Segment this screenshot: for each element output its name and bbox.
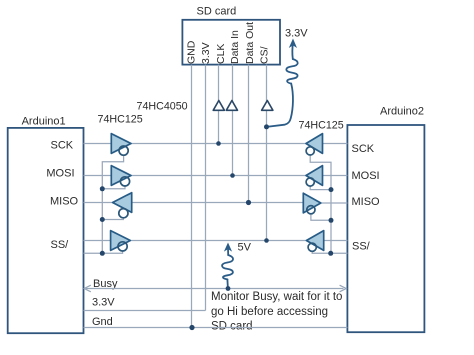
wire 3.3V pin vertical: [205, 65, 207, 311]
resistor R1 3.3V pull-up (CS): [286, 59, 297, 84]
wire left MOSI enable stub: [102, 186, 125, 189]
svg-text:Gnd: Gnd: [92, 316, 113, 328]
wire left MISO enable stub: [102, 218, 123, 220]
arrowhead 5V supply: [224, 243, 232, 252]
wire Busy net: [86, 288, 344, 290]
buffer 74HC125 right SS: [306, 231, 323, 251]
buffer 74HC4050 CLK: [213, 101, 224, 111]
junction right enable MISO: [329, 218, 334, 223]
wire Data Out pin vertical: [248, 65, 250, 203]
buffer 74HC125 right MISO: [303, 193, 321, 213]
junction CLK/SCK: [216, 141, 221, 146]
wire 3.3V arrow shaft: [291, 43, 294, 59]
svg-text:SS/: SS/: [51, 239, 70, 251]
wire SCK buffer to Arduino2: [323, 143, 348, 145]
wire CLK pin vertical: [218, 65, 220, 144]
buffer 74HC125 left MOSI: [111, 166, 131, 186]
buffer 74HC4050 CS: [262, 101, 273, 111]
wire right enable bus vertical: [310, 155, 331, 253]
svg-text:5V: 5V: [238, 242, 252, 254]
enable bubble left MISO: [119, 209, 128, 218]
enable bubble left MOSI: [120, 177, 129, 186]
junction CS/SS: [264, 238, 269, 243]
junction right enable SS: [328, 251, 333, 256]
wire Gnd net horizontal: [84, 327, 348, 329]
svg-text:MISO: MISO: [352, 196, 381, 208]
resistor R2 5V pull-up (Busy): [222, 255, 233, 279]
wire MISO Arduino1 to buffer: [84, 202, 113, 204]
enable bubble left SS: [118, 242, 127, 251]
svg-text:Data In: Data In: [229, 30, 241, 64]
buffer 74HC125 left SCK: [111, 134, 131, 154]
wire MOSI bus: [131, 175, 306, 177]
SD card box U3: [182, 20, 280, 65]
svg-text:3.3V: 3.3V: [92, 297, 115, 309]
svg-text:MOSI: MOSI: [352, 170, 380, 182]
buffer 74HC4050 Data In: [226, 101, 237, 111]
svg-text:CLK: CLK: [215, 44, 227, 64]
svg-text:SD card: SD card: [211, 321, 253, 333]
arrowhead Busy left: [84, 285, 91, 292]
svg-text:74HC4050: 74HC4050: [137, 101, 188, 113]
svg-text:SCK: SCK: [51, 140, 74, 152]
svg-text:74HC125: 74HC125: [98, 114, 143, 126]
arrowhead 3.3V supply: [289, 39, 297, 49]
buffer 74HC125 right SCK: [306, 134, 323, 154]
wire CS pin vertical: [266, 65, 268, 241]
wire left enable bus vertical: [102, 155, 123, 253]
arrowhead Busy right: [340, 285, 347, 292]
enable bubble right SS: [308, 243, 316, 251]
enable bubble right SCK: [306, 147, 314, 155]
svg-text:Monitor Busy, wait for it to: Monitor Busy, wait for it to: [211, 291, 342, 303]
junction Data In/MOSI: [230, 173, 235, 178]
junction right enable MOSI: [329, 187, 334, 192]
wire MOSI Arduino1 to buffer: [84, 175, 112, 177]
wire SS bus: [130, 240, 306, 242]
wire right MOSI enable stub: [310, 186, 331, 189]
wire MISO buffer to Arduino2: [321, 202, 348, 204]
wire right SS enable stub into Arduino2: [312, 251, 347, 253]
enable bubble left SCK: [119, 146, 128, 155]
svg-text:Arduino1: Arduino1: [22, 116, 66, 128]
wire R2 to Busy junction: [226, 279, 229, 288]
wire 5V arrow shaft: [227, 248, 229, 256]
svg-text:3.3V: 3.3V: [200, 42, 212, 64]
svg-text:go Hi before accessing: go Hi before accessing: [211, 306, 328, 318]
svg-text:CS/: CS/: [259, 46, 271, 64]
svg-text:GND: GND: [186, 40, 198, 64]
svg-text:SS/: SS/: [352, 241, 371, 253]
svg-text:MISO: MISO: [50, 196, 79, 208]
wire SS buffer to Arduino2: [324, 240, 348, 242]
wire SS Arduino1 to buffer: [84, 240, 111, 242]
svg-text:SD card: SD card: [197, 6, 237, 18]
wire R1 to CS junction: [267, 84, 293, 127]
wire right MISO enable stub: [311, 214, 331, 220]
junction left enable SS: [100, 251, 105, 256]
svg-text:SCK: SCK: [352, 143, 375, 155]
Arduino2 box: [347, 125, 424, 332]
Arduino1 box: [8, 128, 84, 333]
buffer 74HC125 left SS: [111, 231, 131, 251]
junction CS/R1: [264, 124, 269, 129]
junction left enable MISO: [100, 217, 105, 222]
svg-text:Data Out: Data Out: [244, 22, 256, 64]
enable bubble right MISO: [307, 206, 315, 214]
wire SCK bus: [131, 143, 306, 145]
svg-text:MOSI: MOSI: [46, 168, 74, 180]
wire Data In pin vertical: [232, 65, 234, 176]
wire GND pin vertical: [191, 65, 193, 328]
svg-text:3.3V: 3.3V: [285, 28, 308, 40]
junction left enable MOSI: [100, 186, 105, 191]
junction GND/Gnd: [189, 325, 194, 330]
wire SCK Arduino1 to buffer: [84, 143, 112, 145]
wire MOSI buffer to Arduino2: [323, 175, 348, 177]
buffer 74HC125 right MOSI: [306, 166, 323, 186]
junction R2/Busy: [226, 286, 231, 291]
buffer 74HC125 left MISO: [113, 193, 132, 213]
wire MISO bus: [132, 202, 304, 204]
wire 3.3V net horizontal: [84, 310, 206, 312]
enable bubble right MOSI: [306, 178, 314, 186]
junction Data Out/MISO: [246, 200, 251, 205]
svg-text:Arduino2: Arduino2: [380, 106, 424, 118]
svg-text:74HC125: 74HC125: [299, 120, 344, 132]
wire left SS enable stub into Arduino1: [84, 251, 123, 254]
